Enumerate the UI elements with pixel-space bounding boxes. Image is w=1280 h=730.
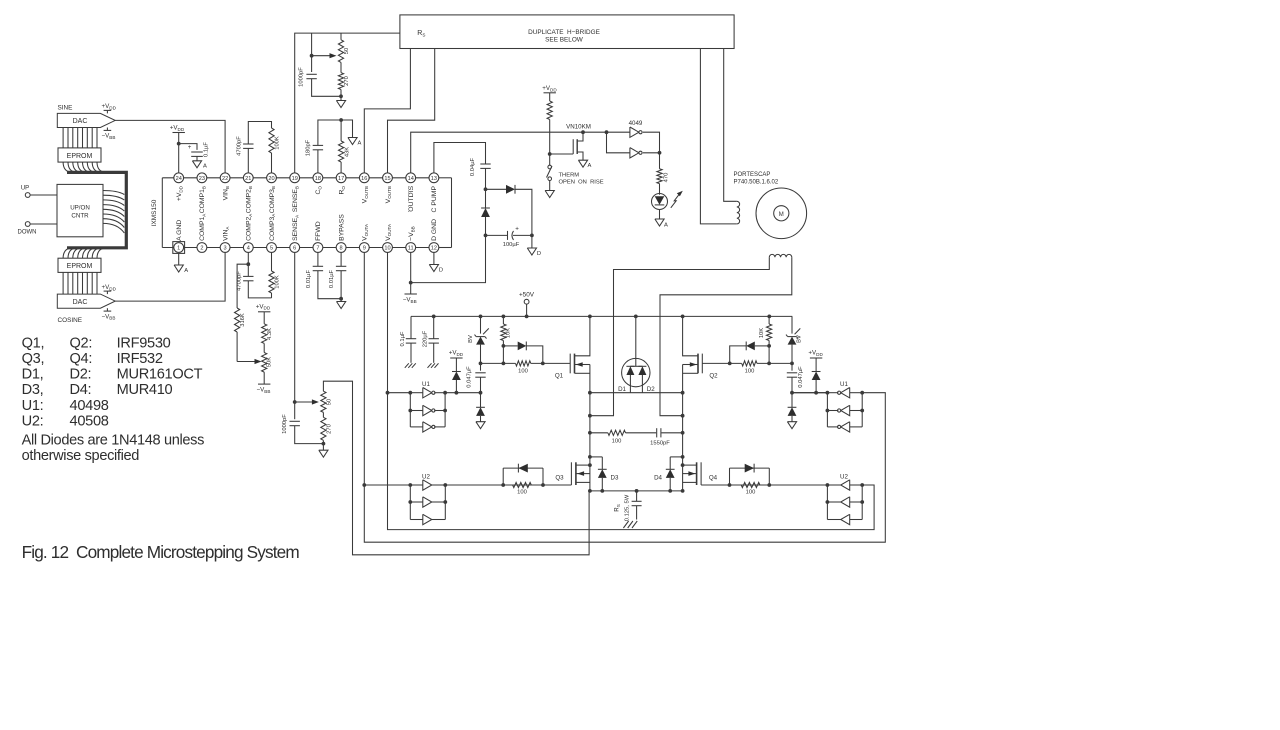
svg-text:IRF532: IRF532 [117,351,163,367]
svg-text:P740.50B.1.6.02: P740.50B.1.6.02 [734,180,779,186]
svg-text:COMP2B: COMP2B [246,186,253,213]
svg-text:EPROM: EPROM [67,153,93,160]
svg-text:0.125, 5W: 0.125, 5W [625,494,631,521]
svg-text:DAC: DAC [73,299,88,306]
svg-text:UP: UP [21,186,29,192]
svg-text:24: 24 [176,176,182,182]
svg-text:D GND: D GND [431,219,438,241]
svg-text:Q3,: Q3, [22,351,45,367]
svg-text:50: 50 [344,48,350,54]
svg-text:100: 100 [518,368,528,374]
svg-text:A GND: A GND [176,220,183,241]
svg-text:Q2: Q2 [709,373,718,380]
svg-text:EPROM: EPROM [67,263,93,270]
svg-text:U2: U2 [840,473,848,480]
svg-text:D1: D1 [618,386,626,393]
svg-text:20: 20 [268,176,274,182]
svg-text:All Diodes are 1N4148 unless: All Diodes are 1N4148 unless [22,432,205,448]
svg-text:SENSEB: SENSEB [292,186,299,212]
svg-text:otherwise specified: otherwise specified [22,448,140,464]
svg-text:COMP1B: COMP1B [199,186,206,213]
svg-text:40498: 40498 [70,398,109,414]
svg-text:0.04µF: 0.04µF [470,157,476,176]
svg-text:A: A [184,268,188,274]
svg-text:13: 13 [431,176,437,182]
svg-text:IRF9530: IRF9530 [117,335,171,351]
svg-text:100: 100 [746,490,756,496]
svg-text:A: A [588,163,592,169]
svg-text:DOWN: DOWN [18,230,37,236]
svg-text:C PUMP: C PUMP [431,186,438,213]
svg-text:43K: 43K [344,147,350,157]
svg-text:5: 5 [270,246,273,252]
svg-text:IXMS150: IXMS150 [151,199,158,226]
svg-text:0.1µF: 0.1µF [400,331,406,346]
svg-text:+: + [515,226,519,233]
svg-text:D: D [439,268,443,274]
svg-text:UP/ON: UP/ON [70,205,90,212]
svg-text:1000pF: 1000pF [282,414,288,434]
svg-text:100µF: 100µF [503,242,520,248]
svg-text:OUTDIS: OUTDIS [408,186,415,212]
svg-text:270: 270 [344,76,350,86]
svg-text:220µF: 220µF [423,330,429,347]
svg-text:470: 470 [663,173,669,183]
svg-text:A: A [203,163,207,169]
svg-text:10: 10 [384,246,390,252]
svg-text:4.3K: 4.3K [267,328,273,340]
svg-text:D: D [537,251,541,257]
svg-text:14: 14 [408,176,414,182]
svg-text:0.047µF: 0.047µF [798,366,804,388]
svg-text:21: 21 [245,176,251,182]
svg-text:100: 100 [745,368,755,374]
svg-text:U1:: U1: [22,398,44,414]
svg-text:Q3: Q3 [555,475,564,482]
svg-text:Q1,: Q1, [22,335,45,351]
svg-text:THERM: THERM [559,173,580,179]
svg-text:9: 9 [363,246,366,252]
svg-text:4: 4 [247,246,250,252]
svg-text:270: 270 [327,424,333,434]
svg-text:0.1µF: 0.1µF [204,142,210,157]
svg-text:19: 19 [292,176,298,182]
svg-text:M: M [779,212,784,218]
svg-text:COMP1A: COMP1A [199,213,206,241]
svg-text:100: 100 [517,490,527,496]
svg-text:D3: D3 [611,474,619,481]
svg-text:D2: D2 [647,386,655,393]
svg-text:0.01µF: 0.01µF [306,269,312,288]
svg-text:Q1: Q1 [555,373,564,380]
svg-text:12: 12 [431,246,437,252]
svg-text:16: 16 [361,176,367,182]
svg-text:1550pF: 1550pF [650,441,670,447]
svg-text:15: 15 [384,176,390,182]
svg-text:10K: 10K [506,328,512,338]
svg-text:D4:: D4: [70,382,92,398]
svg-text:4700pF: 4700pF [236,136,242,156]
svg-text:Q4:: Q4: [70,351,93,367]
svg-text:COMP3B: COMP3B [269,186,276,213]
svg-text:VN10KM: VN10KM [566,124,591,131]
svg-text:D4: D4 [654,474,662,481]
svg-text:8: 8 [340,246,343,252]
svg-text:7: 7 [316,246,319,252]
svg-text:Fig. 12 Complete Microsteppin: Fig. 12 Complete Microstepping System [22,542,300,562]
svg-text:100K: 100K [275,136,281,150]
svg-text:SINE: SINE [58,104,73,111]
svg-text:1000pF: 1000pF [298,67,304,87]
svg-text:18: 18 [315,176,321,182]
svg-text:DAC: DAC [73,118,88,125]
svg-text:DUPLICATE H−BRIDGE: DUPLICATE H−BRIDGE [528,29,600,36]
svg-text:Q2:: Q2: [70,335,93,351]
svg-text:0.01µF: 0.01µF [329,269,335,288]
svg-text:100: 100 [612,439,622,445]
svg-text:11: 11 [408,246,414,252]
svg-text:316K: 316K [240,313,246,327]
svg-text:+: + [188,144,192,151]
svg-text:PORTESCAP: PORTESCAP [734,172,771,178]
svg-text:OPEN ON RISE: OPEN ON RISE [559,180,604,186]
svg-text:40508: 40508 [70,414,109,430]
svg-text:100K: 100K [275,275,281,289]
svg-text:BV: BV [797,335,803,343]
svg-text:COSINE: COSINE [58,317,83,324]
svg-text:+50V: +50V [519,292,535,299]
svg-text:A: A [664,223,668,229]
svg-text:U2: U2 [422,473,430,480]
svg-text:180pF: 180pF [306,139,312,156]
svg-text:2: 2 [200,246,203,252]
svg-text:FFWD: FFWD [315,221,322,241]
svg-text:U1: U1 [840,381,848,388]
svg-text:D1,: D1, [22,366,44,382]
svg-text:22: 22 [222,176,228,182]
svg-text:1: 1 [177,246,180,252]
svg-text:23: 23 [199,176,205,182]
svg-text:COMP3A: COMP3A [269,213,276,241]
svg-text:U1: U1 [422,381,430,388]
svg-text:D3,: D3, [22,382,44,398]
svg-text:BYPASS: BYPASS [338,214,345,241]
svg-text:17: 17 [338,176,344,182]
svg-text:3: 3 [224,246,227,252]
svg-text:MUR410: MUR410 [117,382,173,398]
svg-text:BV: BV [468,335,474,343]
svg-text:MUR161OCT: MUR161OCT [117,366,203,382]
svg-text:0.047µF: 0.047µF [467,366,473,388]
svg-text:4049: 4049 [629,120,643,127]
svg-text:SEE BELOW: SEE BELOW [545,37,584,44]
svg-text:U2:: U2: [22,414,44,430]
svg-text:SENSEA: SENSEA [292,214,299,241]
svg-text:50: 50 [327,399,333,405]
svg-text:CNTR: CNTR [71,213,89,220]
svg-text:A: A [358,141,362,147]
svg-text:10K: 10K [759,328,765,338]
svg-text:50K: 50K [267,357,273,367]
svg-text:D2:: D2: [70,366,92,382]
svg-text:COMP2A: COMP2A [246,213,253,241]
svg-text:6: 6 [293,246,296,252]
svg-text:Q4: Q4 [709,475,718,482]
